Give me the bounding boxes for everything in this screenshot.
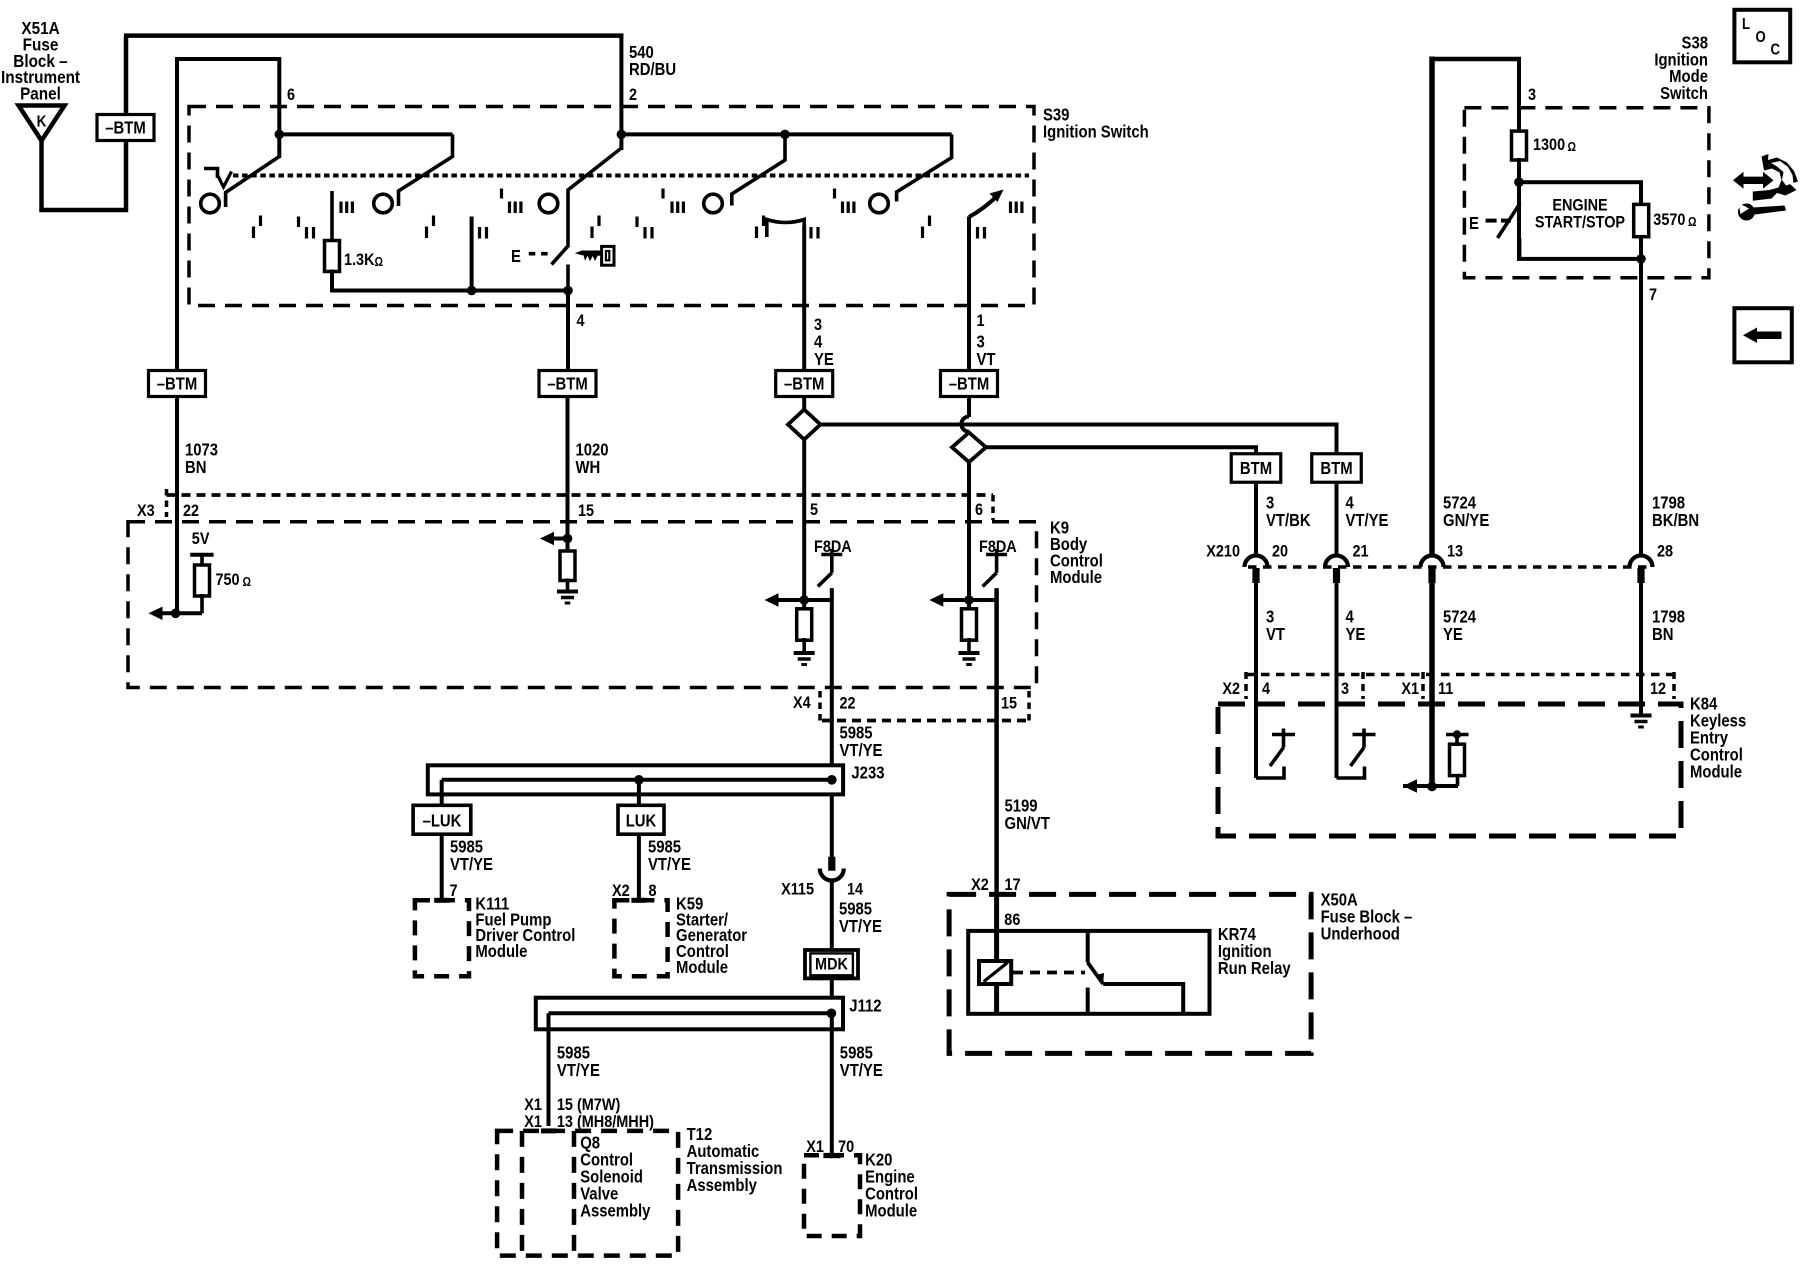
svg-text:VT: VT: [1266, 625, 1285, 644]
svg-text:Ω: Ω: [243, 575, 252, 589]
svg-text:Module: Module: [1690, 763, 1742, 782]
svg-text:Run Relay: Run Relay: [1218, 959, 1291, 978]
wire 540 RD/BU pin 2 drop: [619, 34, 623, 150]
diagnostic icon (arrows and wrench): [1733, 172, 1774, 189]
svg-text:VT/YE: VT/YE: [557, 1061, 600, 1080]
svg-text:X3: X3: [137, 502, 155, 520]
svg-text:O: O: [1756, 29, 1766, 46]
S39 bus wire pins 6 group: [279, 132, 452, 136]
splice -BTM (5) on circuit 3 VT: [941, 371, 998, 397]
svg-text:Panel: Panel: [20, 83, 61, 103]
svg-text:J112: J112: [849, 996, 881, 1015]
S39 section 3 moving arm from pin 2: [552, 148, 622, 265]
svg-text:Ω: Ω: [375, 255, 384, 269]
S39 switch position marks (section at x=713): [755, 227, 758, 239]
svg-text:15: 15: [578, 502, 594, 520]
wire diamond2 to K9 pin 6: [967, 462, 971, 602]
S39 section 1 pivot circle: [201, 194, 220, 213]
svg-text:3: 3: [1341, 680, 1349, 698]
wire 4 YE to K84 X2-3: [1335, 582, 1339, 778]
K111 Fuel Pump Driver Control Module dashed box: [415, 900, 469, 976]
wire hop over diamond1 branch: [961, 417, 969, 432]
wire MDK to J112: [830, 978, 834, 999]
wire 4 VT/YE to X210-21: [1335, 483, 1339, 558]
svg-text:1300: 1300: [1533, 136, 1565, 154]
S39 key-switch fixed contact stub: [566, 265, 570, 293]
svg-text:VT/YE: VT/YE: [450, 855, 493, 874]
S39 section5 position II wire to pin 1: [967, 217, 971, 373]
S39 section 5 pivot circle: [870, 194, 889, 213]
S39 switch position marks (section at x=383): [425, 227, 428, 239]
svg-text:–BTM: –BTM: [105, 118, 145, 137]
wire LUK to K59 X2-8: [637, 834, 641, 900]
svg-text:–BTM: –BTM: [547, 374, 587, 393]
tap wire to -LUK: [440, 780, 444, 806]
svg-text:21: 21: [1353, 542, 1369, 560]
svg-text:Module: Module: [865, 1202, 917, 1221]
wire S38 pin 3 drop: [1517, 57, 1521, 132]
svg-text:VT/YE: VT/YE: [648, 855, 691, 874]
wire circuit 4 YE from -BTM to diamond: [802, 396, 806, 410]
K84 Keyless Entry Control Module dashed box: [1218, 704, 1681, 836]
S39 switch position marks (section at x=879): [921, 227, 924, 239]
svg-text:START/STOP: START/STOP: [1535, 214, 1625, 232]
K9 internal arrow (X3-22): [160, 611, 202, 615]
S39 wiper home-position symbol (bent arrow): [204, 169, 218, 179]
svg-text:7: 7: [450, 882, 458, 900]
svg-text:1.3K: 1.3K: [344, 251, 375, 269]
wire diamond1 to K9 pin 5: [802, 440, 806, 603]
junction dot S38: [1514, 177, 1524, 187]
wire 1798 BN to K84 ground: [1639, 582, 1643, 716]
splice LUK: [618, 805, 664, 834]
svg-text:11: 11: [1438, 680, 1453, 698]
K59 Starter/Generator Control Module dashed box: [614, 900, 667, 976]
wire 1020 WH to X3-15: [566, 396, 570, 553]
tap wire to LUK: [637, 780, 641, 806]
S38 pushbutton moving contact: [1498, 203, 1521, 238]
junction dot pin6/bus: [275, 130, 285, 140]
key glyph: [602, 246, 614, 265]
T12 Automatic Transmission Assembly dashed box: [497, 1131, 678, 1256]
K84 internal switch (X2-3): [1335, 582, 1339, 778]
svg-text:17: 17: [1005, 876, 1021, 894]
splice pack MDK: [805, 950, 858, 978]
ground symbol (K84 pin 12): [1631, 714, 1652, 718]
svg-text:750: 750: [216, 571, 240, 589]
relay switch: [1086, 931, 1090, 963]
svg-text:VT/YE: VT/YE: [840, 741, 883, 760]
S39 section 1 moving arm: [226, 157, 280, 208]
splice -BTM (2) on 1073 BN: [149, 371, 206, 397]
junction dot S38 lower: [1636, 254, 1646, 264]
back-arrow reference box: [1734, 308, 1791, 362]
splice -BTM (4) on circuit 4 YE: [776, 371, 833, 397]
connector line K84 X2/X1 dotted: [1246, 673, 1676, 677]
wire circuit 3 VT from -BTM to hop: [967, 396, 971, 417]
svg-text:VT: VT: [977, 350, 996, 369]
svg-text:BTM: BTM: [1320, 459, 1352, 478]
wire diamond1 to BTM splice (VT/YE 4): [820, 425, 1336, 456]
svg-text:GN/YE: GN/YE: [1443, 511, 1489, 530]
K20 Engine Control Module dashed box: [804, 1155, 860, 1236]
splice pack J233: [428, 765, 843, 794]
S39 Ignition Switch dashed box: [189, 107, 1034, 306]
svg-text:BN: BN: [185, 458, 206, 477]
S39 mechanical link dotted line: [233, 174, 1029, 178]
svg-text:J233: J233: [851, 763, 884, 782]
svg-text:5V: 5V: [192, 530, 210, 548]
svg-text:RD/BU: RD/BU: [629, 60, 676, 79]
S39 section 4 moving arm: [732, 134, 785, 205]
LOC reference box: [1734, 10, 1790, 63]
wire resistor to S39 bottom bus: [330, 270, 334, 293]
svg-text:ENGINE: ENGINE: [1552, 197, 1607, 215]
junction dot pin2/bus: [617, 130, 627, 140]
key link dashes: [529, 252, 536, 256]
wire resistor 750 to junction: [200, 594, 204, 613]
svg-text:X1: X1: [1401, 680, 1419, 698]
svg-text:VT/YE: VT/YE: [1346, 511, 1389, 530]
S39 switch position marks (section at x=210): [252, 227, 255, 239]
svg-text:12: 12: [1650, 680, 1666, 698]
wire K9 output X4-15 (5199 GN/VT): [994, 588, 999, 895]
resistor 1.3K ohm: [325, 241, 340, 272]
svg-text:Assembly: Assembly: [687, 1176, 757, 1195]
svg-text:GN/VT: GN/VT: [1005, 814, 1051, 833]
svg-text:Module: Module: [475, 942, 527, 961]
resistor 3570 ohm: [1634, 204, 1649, 236]
svg-text:VT/YE: VT/YE: [840, 1061, 883, 1080]
S39 section 2 pivot circle: [374, 194, 393, 213]
tap wire J112 to Q8: [547, 1013, 551, 1126]
svg-text:Switch: Switch: [1660, 84, 1708, 103]
splice -LUK: [413, 805, 471, 834]
svg-text:X2: X2: [1222, 680, 1240, 698]
svg-text:X4: X4: [793, 694, 811, 712]
svg-text:X115: X115: [781, 880, 814, 898]
svg-text:LUK: LUK: [626, 811, 657, 830]
wire K9 output X4-22 (5985 VT/YE): [830, 588, 834, 767]
svg-text:Ignition Switch: Ignition Switch: [1043, 123, 1149, 142]
svg-text:15: 15: [1001, 694, 1017, 712]
svg-text:Module: Module: [676, 958, 728, 977]
svg-text:VT/YE: VT/YE: [839, 917, 882, 936]
svg-text:X2: X2: [971, 876, 989, 894]
wire 5199 through coil: [994, 892, 999, 961]
diamond splice node (1): [788, 410, 820, 440]
svg-text:Module: Module: [1050, 568, 1102, 587]
connector X115 inline: [828, 857, 835, 871]
S39 section 5 moving arm: [897, 134, 952, 201]
relay mechanical dashed link: [1013, 971, 1085, 975]
svg-text:YE: YE: [814, 350, 834, 369]
wire X4-22 through J233 to X115: [830, 794, 834, 857]
wire 5724 YE (thick) to K84 X1-11: [1429, 582, 1435, 788]
svg-text:X210: X210: [1206, 542, 1240, 560]
connector X3 dotted line: [167, 493, 994, 497]
svg-text:4: 4: [1262, 680, 1270, 698]
svg-text:14: 14: [847, 880, 863, 898]
S39 switch position marks (section at x=548.5): [590, 227, 593, 239]
connector X210 pin 13: [1421, 556, 1444, 568]
svg-text:L: L: [1742, 16, 1750, 33]
svg-text:22: 22: [183, 502, 199, 520]
svg-text:Ω: Ω: [1688, 215, 1697, 229]
wire 1798 BK/BN from S38 pin 7: [1639, 259, 1643, 557]
resistor 750 ohm: [195, 565, 210, 596]
wire J112 through to K20: [830, 1013, 834, 1155]
diamond splice node (2): [952, 433, 986, 463]
wire X115 to MDK: [830, 882, 834, 951]
KR74 relay coil: [979, 961, 1011, 984]
junction dot section4 arm / bus: [780, 130, 790, 140]
svg-text:E: E: [1469, 214, 1479, 233]
svg-text:–BTM: –BTM: [784, 374, 824, 393]
resistor 1300 ohm: [1512, 131, 1527, 160]
K9 internal arrow + resistor + ground (X3-15): [552, 537, 568, 541]
svg-text:6: 6: [975, 501, 983, 519]
svg-text:3570: 3570: [1653, 211, 1685, 229]
connector X4 dotted line: [822, 719, 1029, 723]
S39 bottom bus wire to pin 4: [330, 289, 568, 293]
svg-text:4: 4: [577, 312, 585, 330]
svg-text:7: 7: [1649, 286, 1657, 304]
K9 Body Control Module dashed box: [128, 522, 1037, 688]
S39 section1 position III wire to resistor: [330, 191, 334, 242]
svg-text:1: 1: [977, 312, 985, 330]
svg-text:15 (M7W): 15 (M7W): [557, 1096, 620, 1114]
pin 3 wire (staple) to -BTM: [802, 226, 806, 372]
svg-text:YE: YE: [1443, 625, 1463, 644]
S39 section4 position II staple contact to pin 3: [767, 220, 804, 238]
connector X210 dotted line: [1248, 565, 1652, 569]
svg-text:K: K: [37, 114, 47, 131]
svg-text:–BTM: –BTM: [157, 374, 197, 393]
svg-text:–BTM: –BTM: [949, 374, 989, 393]
svg-text:X2: X2: [612, 882, 630, 900]
wire 3 VT to K84 X2-4: [1254, 582, 1258, 778]
svg-text:86: 86: [1004, 911, 1020, 929]
S39 section5 momentary return arrow: [969, 197, 996, 217]
wire top feed from X51A fuse block: [42, 36, 127, 210]
ENGINE START/STOP switch box: [1519, 182, 1641, 259]
splice -BTM (3) on 1020 WH: [539, 371, 596, 397]
wire 5724 GN/YE (thick) from S38 pin 3 corner: [1429, 57, 1435, 558]
splice pack J112: [536, 998, 843, 1030]
splice -BTM (1): [97, 115, 154, 141]
S38 Ignition Mode Switch dashed box: [1464, 108, 1709, 278]
svg-text:Underhood: Underhood: [1321, 925, 1400, 944]
svg-text:2: 2: [629, 86, 637, 104]
svg-text:Assembly: Assembly: [580, 1202, 650, 1221]
X50A Fuse Block - Underhood dashed box: [949, 894, 1311, 1053]
svg-text:28: 28: [1657, 542, 1673, 560]
connector X210 pin 21: [1325, 556, 1348, 568]
junction dot bottom bus / key contact: [563, 286, 573, 296]
svg-text:BTM: BTM: [1240, 459, 1272, 478]
S39 section 2 moving arm: [399, 134, 453, 206]
K84 internal pull-up and arrow (X1-11): [1403, 784, 1458, 788]
svg-text:BK/BN: BK/BN: [1652, 511, 1699, 530]
wire diamond2 to BTM splice (VT/BK 3): [986, 447, 1256, 455]
S39 section 4 pivot circle: [704, 194, 723, 213]
svg-text:6: 6: [287, 86, 295, 104]
svg-text:X1: X1: [524, 1096, 542, 1114]
svg-text:MDK: MDK: [815, 955, 848, 973]
splice BTM (A) VT/BK: [1231, 454, 1281, 483]
S39 section2 position II contact wire: [470, 217, 474, 293]
svg-text:WH: WH: [576, 458, 601, 477]
connector X210 pin 20: [1245, 556, 1268, 568]
svg-text:BN: BN: [1652, 625, 1673, 644]
pin 4 wire to -BTM: [566, 291, 570, 373]
connector X210 pin 28: [1630, 556, 1653, 568]
svg-text:YE: YE: [1346, 625, 1366, 644]
S38 fixed contact stub: [1518, 238, 1522, 259]
wire 3 VT/BK to X210-20: [1254, 483, 1258, 558]
svg-text:22: 22: [840, 694, 856, 712]
KR74 Ignition Run Relay box: [968, 931, 1209, 1014]
S39 bus wire pin 2 group: [621, 132, 951, 136]
svg-text:VT/BK: VT/BK: [1266, 511, 1311, 530]
svg-text:–LUK: –LUK: [423, 811, 462, 830]
svg-text:Ω: Ω: [1568, 140, 1577, 154]
wire 1073 BN pin 6 feed: [175, 58, 179, 614]
S39 section 3 (key) pivot circle: [539, 194, 558, 213]
svg-text:5: 5: [810, 501, 818, 519]
svg-text:E: E: [511, 247, 521, 266]
wire -LUK to K111 pin 7: [440, 834, 444, 900]
antenna symbol K (X51A): [19, 106, 65, 141]
wire pin 6 drop into S39: [277, 57, 281, 158]
wire resistor to junction: [1517, 158, 1521, 184]
svg-text:3: 3: [1528, 86, 1536, 104]
svg-text:13: 13: [1447, 542, 1463, 560]
svg-text:8: 8: [649, 882, 657, 900]
Q8 sub-box dashed: [520, 1131, 525, 1256]
svg-text:20: 20: [1272, 542, 1288, 560]
junction dot bottom bus / section2-II: [467, 286, 477, 296]
splice BTM (B) VT/YE: [1312, 454, 1362, 483]
K84 internal switch (X2-4): [1254, 582, 1258, 778]
svg-text:C: C: [1771, 42, 1781, 59]
